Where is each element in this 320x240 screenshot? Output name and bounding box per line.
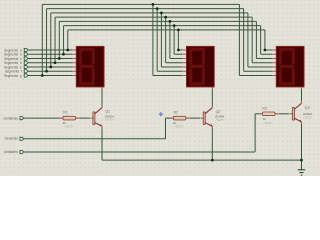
wire R1 to Q1 base	[79, 117, 90, 119]
wire Centenas to R1	[24, 117, 61, 119]
resistor R2	[171, 116, 190, 120]
wire R3 to Q3 base	[279, 113, 290, 115]
wire downcomer d to U3	[251, 17, 253, 63]
wire Decenas to R2	[166, 117, 171, 119]
wire downcomer a to U3	[264, 30, 266, 50]
pin U3 a	[272, 49, 276, 51]
wire display common to collector	[211, 89, 213, 105]
wire row g to U2	[153, 75, 182, 77]
wire Q1 emitter down	[101, 129, 103, 161]
wire riser a	[67, 30, 69, 50]
junction run g tap	[152, 3, 155, 6]
wire R2 to Q2 base	[189, 117, 200, 119]
pin U1 c	[72, 58, 76, 60]
wire Q2 emitter down	[211, 129, 213, 161]
wire downcomer c to U2	[169, 21, 171, 58]
wire Unidades horizontal	[24, 151, 255, 153]
pin U2 g	[182, 75, 186, 77]
wire downcomer b to U3	[260, 26, 262, 55]
terminal Segments b	[24, 53, 28, 56]
wire Q3 emitter down	[301, 124, 303, 169]
pin U3 e	[272, 66, 276, 68]
pin U1 f	[72, 70, 76, 72]
wire display common to collector	[301, 89, 303, 101]
ground	[298, 170, 305, 175]
pin U3 b	[272, 53, 276, 55]
wire Unidades riser	[254, 114, 256, 152]
wire top run g	[42, 3, 239, 5]
wire segment d to U1 pin	[28, 62, 72, 64]
wire downcomer a to U2	[177, 30, 179, 50]
svg-text:Q3: Q3	[305, 106, 310, 110]
wire downcomer f to U3	[243, 9, 245, 72]
junction run b tap	[173, 24, 176, 27]
wire row d to U3	[252, 62, 272, 64]
transistor Q1	[91, 106, 103, 129]
wire riser g	[41, 4, 43, 75]
svg-text:1k: 1k	[263, 117, 267, 121]
pin U2 e	[182, 66, 186, 68]
svg-text:Centenas: Centenas	[3, 116, 18, 120]
junction run a tap	[177, 29, 180, 32]
junction run e tap	[160, 12, 163, 15]
terminal Segments e	[24, 65, 28, 68]
wire downcomer e to U2	[160, 13, 162, 67]
svg-text:Q2: Q2	[216, 110, 221, 114]
pin display common	[301, 87, 303, 90]
svg-text:Segments g: Segments g	[4, 74, 22, 78]
wire Decenas riser	[165, 118, 167, 139]
wire segment g to U1 pin	[28, 75, 72, 77]
junction U3 pin a	[264, 49, 267, 52]
wire top run e	[51, 12, 248, 14]
pin U1 g	[72, 75, 76, 77]
wire row f to U3	[244, 70, 272, 72]
svg-text:R2: R2	[174, 111, 178, 115]
pin U1 a	[72, 49, 76, 51]
terminal Decenas	[20, 137, 24, 140]
wire row g to U3	[239, 75, 272, 77]
wire downcomer f to U2	[156, 9, 158, 72]
wire segment a to U1 pin	[28, 49, 72, 51]
pin U3 f	[272, 70, 276, 72]
wire riser c	[58, 21, 60, 58]
wire segment e to U1 pin	[28, 66, 72, 68]
junction riser c on row c	[58, 57, 61, 60]
svg-text:<TEXT>: <TEXT>	[105, 118, 115, 122]
wire downcomer g to U3	[238, 4, 240, 75]
wire top run d	[55, 16, 252, 18]
junction riser d on row d	[54, 61, 57, 64]
resistor R1	[60, 116, 79, 120]
wire segment f to U1 pin	[28, 70, 72, 72]
junction U2 pin a	[177, 49, 180, 52]
resistor R3	[260, 112, 279, 116]
wire row e to U2	[161, 66, 182, 68]
junction riser g on row g	[41, 74, 44, 77]
wire row d to U2	[166, 62, 183, 64]
junction riser e on row e	[49, 66, 52, 69]
terminal Segments a	[24, 48, 28, 51]
transistor Q2	[201, 106, 213, 129]
wire Decenas horizontal	[24, 138, 166, 140]
svg-text:Decenas: Decenas	[5, 137, 19, 141]
junction riser b on row b	[62, 53, 65, 56]
pin U2 c	[182, 58, 186, 60]
terminal Segments d	[24, 61, 28, 64]
junction rail at Q3	[300, 159, 303, 162]
pin U2 b	[182, 53, 186, 55]
wire emitter rail	[102, 159, 302, 161]
wire downcomer b to U2	[173, 26, 175, 55]
terminal Centenas	[20, 117, 24, 120]
junction run d tap	[164, 16, 167, 19]
junction run f tap	[156, 7, 159, 10]
pin display common	[211, 87, 213, 90]
pin U1 b	[72, 53, 76, 55]
pin U2 d	[182, 62, 186, 64]
wire row c to U3	[256, 58, 272, 60]
wire top run f	[47, 8, 244, 10]
wire row c to U2	[170, 58, 182, 60]
terminal Segments f	[24, 70, 28, 73]
svg-text:<TEXT>: <TEXT>	[303, 115, 313, 119]
terminal Unidades	[20, 150, 24, 153]
wire riser b	[63, 26, 65, 55]
wire segment c to U1 pin	[28, 58, 72, 60]
pin U1 e	[72, 66, 76, 68]
pin U3 g	[272, 75, 276, 77]
junction Q2 emitter rail	[211, 159, 214, 162]
svg-text:<TEXT>: <TEXT>	[63, 125, 74, 129]
wire row a to U3	[265, 49, 272, 51]
svg-text:R3: R3	[262, 106, 266, 110]
wire downcomer e to U3	[247, 13, 249, 67]
wire riser f	[46, 9, 48, 72]
wire row f to U2	[157, 70, 182, 72]
wire row e to U3	[248, 66, 272, 68]
wire riser e	[50, 13, 52, 67]
pin U3 d	[272, 62, 276, 64]
7-segment display U3	[276, 46, 304, 87]
wire top run a	[68, 29, 265, 31]
pin U2 f	[182, 70, 186, 72]
terminal Segments g	[24, 74, 28, 77]
marker origin diamond	[159, 112, 164, 117]
wire downcomer d to U2	[165, 17, 167, 63]
wire top run b	[64, 25, 261, 27]
wire Unidades to R3	[255, 113, 260, 115]
transistor Q3	[290, 101, 302, 124]
svg-text:Q1: Q1	[105, 110, 110, 114]
junction run c tap	[169, 20, 172, 23]
pin U3 c	[272, 58, 276, 60]
7-segment display U2	[187, 46, 215, 87]
svg-text:<TEXT>: <TEXT>	[174, 125, 185, 129]
wire row b to U2	[174, 53, 182, 55]
svg-text:Unidades: Unidades	[4, 150, 19, 154]
wire segment b to U1 pin	[28, 53, 72, 55]
wire row a to U2	[178, 49, 182, 51]
wire downcomer g to U2	[152, 4, 154, 75]
terminal Segments c	[24, 57, 28, 60]
wire riser d	[54, 17, 56, 63]
junction riser a on row a	[66, 49, 69, 52]
junction riser f on row f	[45, 70, 48, 73]
svg-text:R1: R1	[63, 111, 67, 115]
wire row b to U3	[261, 53, 272, 55]
pin U2 a	[182, 49, 186, 51]
7-segment display U1	[76, 46, 104, 87]
wire downcomer c to U3	[255, 21, 257, 58]
wire top run c	[59, 20, 256, 22]
wire display common to collector	[101, 89, 103, 105]
svg-text:<TEXT>: <TEXT>	[263, 121, 274, 125]
svg-text:<TEXT>: <TEXT>	[215, 118, 225, 122]
pin U1 d	[72, 62, 76, 64]
pin display common	[101, 87, 103, 90]
